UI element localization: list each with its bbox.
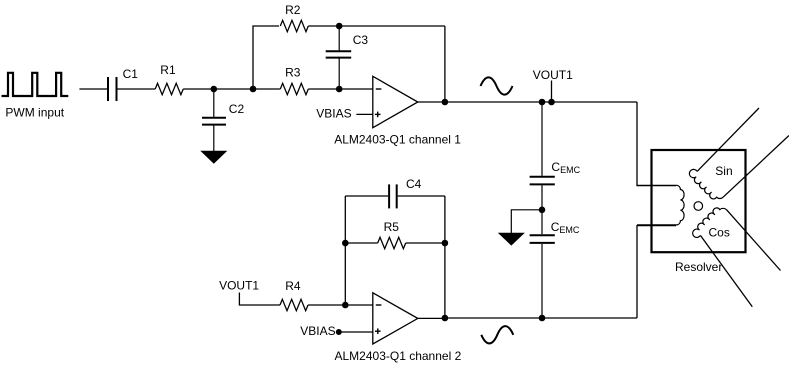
capacitor C2	[202, 117, 226, 119]
wire feedback vertical	[444, 26, 446, 102]
capacitor C_EMC 2	[530, 234, 555, 236]
wire node to C3	[338, 26, 340, 50]
rotor circle	[694, 202, 703, 211]
wire feedback 2 left column	[344, 196, 346, 305]
resistor R4	[280, 299, 308, 310]
svg-text:C3: C3	[353, 33, 369, 47]
wire node B up to R2 branch	[253, 26, 279, 89]
wire C_EMC 2 to bottom wire	[541, 244, 543, 318]
wire C2 to ground	[213, 126, 215, 152]
cos winding	[690, 203, 726, 239]
resistor R3	[280, 83, 308, 94]
wire R5 row left	[345, 242, 377, 244]
node between C_EMC caps	[539, 207, 546, 214]
svg-text:Cos: Cos	[709, 225, 730, 239]
svg-text:R5: R5	[384, 220, 400, 234]
svg-text:ALM2403-Q1 channel 2: ALM2403-Q1 channel 2	[335, 349, 462, 363]
capacitor C1	[107, 77, 109, 101]
svg-text:C1: C1	[123, 67, 139, 81]
wire VOUT1 stub	[551, 81, 553, 103]
ground	[202, 151, 227, 163]
PWM input waveform	[2, 73, 69, 96]
svg-text:VBIAS: VBIAS	[316, 107, 351, 121]
capacitor C3	[326, 50, 352, 52]
op-amp U2	[373, 293, 418, 344]
node A	[211, 86, 218, 93]
svg-text:VOUT1: VOUT1	[219, 279, 259, 293]
node C3 top	[336, 23, 343, 30]
sine symbol 2	[481, 326, 513, 343]
capacitor C_EMC 1	[530, 176, 555, 178]
resistor R1	[155, 83, 183, 94]
node B	[250, 86, 257, 93]
node R5 right	[442, 240, 449, 247]
svg-text:PWM input: PWM input	[5, 106, 64, 120]
svg-text:C2: C2	[229, 102, 245, 116]
node C_EMC tap	[539, 99, 546, 106]
svg-text:R4: R4	[285, 279, 301, 293]
wire VBIAS2 to + input	[339, 331, 373, 333]
wire R4 to op-amp2	[308, 304, 373, 306]
wire R1 to node A to node B to R3	[183, 88, 280, 90]
wire op-amp1 output	[418, 101, 637, 103]
node R3 out	[336, 86, 343, 93]
wire between C_EMC caps	[541, 185, 543, 234]
wire op-amp2 output / bottom wire	[418, 317, 637, 319]
svg-text:Sin: Sin	[715, 164, 732, 178]
wire to C_EMC 1	[541, 102, 543, 176]
op-amp U1	[373, 76, 418, 127]
resistor R5	[378, 237, 406, 248]
node output feedback tap	[442, 99, 449, 106]
resistor R2	[280, 20, 308, 31]
svg-text:R2: R2	[285, 3, 301, 17]
sine symbol 1	[481, 77, 513, 94]
wire C3 to node	[338, 58, 340, 89]
node VOUT1	[548, 99, 555, 106]
wire VOUT1 bottom lead-in	[239, 293, 280, 306]
svg-text:R3: R3	[285, 65, 301, 79]
sin lead A	[697, 108, 759, 171]
svg-text:C4: C4	[406, 177, 422, 191]
wire node A to C2	[213, 89, 215, 117]
ground 2	[499, 233, 524, 245]
svg-text:VOUT1: VOUT1	[533, 68, 573, 82]
wire C4 row right	[398, 195, 445, 197]
wire VOUT1 to resolver top	[637, 102, 676, 186]
svg-text:ALM2403-Q1 channel 1: ALM2403-Q1 channel 1	[334, 133, 461, 147]
sin winding	[687, 168, 723, 204]
wire input to C1	[79, 88, 107, 90]
wire C4 row left	[345, 195, 388, 197]
node bottom feedback tap	[442, 315, 449, 322]
wire to ground 2	[511, 210, 542, 233]
wire bottom to resolver	[637, 226, 676, 318]
node R5 left	[342, 240, 349, 247]
resolver primary coil	[637, 185, 684, 225]
cos lead D	[700, 235, 752, 306]
wire R3 to op-amp	[308, 88, 373, 90]
wire C1 to R1	[118, 88, 156, 90]
svg-text:VBIAS: VBIAS	[300, 324, 335, 338]
node R4 out	[342, 302, 349, 309]
cos lead C	[726, 210, 780, 271]
wire R2 to feedback node	[308, 25, 445, 27]
capacitor C4	[388, 184, 390, 208]
wire R5 row right	[406, 242, 445, 244]
svg-text:R1: R1	[160, 63, 176, 77]
svg-text:Resolver: Resolver	[675, 260, 722, 274]
wire VBIAS1 to + input	[356, 113, 372, 115]
node bottom C_EMC tap	[539, 315, 546, 322]
wire feedback 2 right column	[444, 196, 446, 318]
resolver box	[652, 150, 746, 252]
node VBIAS2	[336, 329, 342, 335]
sin lead B	[723, 136, 789, 198]
